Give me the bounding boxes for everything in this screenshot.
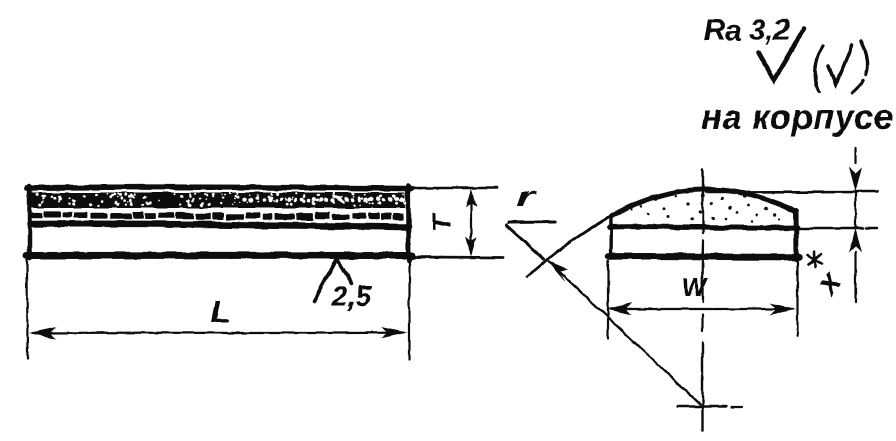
left view: braze seam thick line bbox=[30, 224, 408, 227]
roughness symbol small check in parentheses bbox=[829, 45, 852, 84]
radius leader diagonal bbox=[507, 225, 545, 259]
extension line below right edge for L bbox=[408, 261, 410, 360]
roughness symbol parentheses right bbox=[852, 42, 868, 93]
dimension W right arrowhead bbox=[770, 303, 796, 315]
dimension T lower arrowhead bbox=[466, 237, 477, 257]
dimension W line bbox=[612, 308, 793, 310]
extension line interface extra dash bbox=[866, 227, 877, 229]
dimension x upper arrowhead pointing down bbox=[849, 167, 862, 192]
vertical centerline (dash-dot) of right view bbox=[702, 170, 704, 233]
extension line at apex level for x dimension bbox=[706, 190, 877, 193]
dimension L left arrowhead bbox=[29, 327, 56, 339]
dimension L right arrowhead bbox=[381, 327, 408, 339]
left view: braze seam speckled band bbox=[30, 211, 403, 220]
dimension L line bbox=[33, 331, 404, 334]
label x asterisk bbox=[807, 252, 822, 267]
dimension x lower arrowhead pointing up bbox=[849, 229, 862, 253]
dimension T upper arrowhead bbox=[466, 189, 477, 209]
roughness symbol parentheses left bbox=[815, 46, 823, 92]
svg-text:Ra 3,2: Ra 3,2 bbox=[704, 14, 790, 47]
right view: stipple dots in carbide tip bbox=[631, 194, 780, 222]
radius dimension line from center to arc bbox=[549, 262, 700, 404]
svg-text:на корпусе: на корпусе bbox=[701, 98, 894, 137]
svg-text:T: T bbox=[427, 213, 457, 232]
dimension x lower shaft bbox=[854, 252, 856, 302]
right view: right edge bbox=[794, 212, 800, 260]
svg-text:2,5: 2,5 bbox=[330, 281, 372, 313]
extension line right of bottom edge for T bbox=[412, 256, 503, 259]
left view: plate outline top edge bbox=[27, 187, 411, 188]
center cross extra dash bbox=[731, 406, 742, 408]
centerline lower solid segment through center cross bbox=[701, 343, 703, 431]
svg-text:r: r bbox=[516, 183, 537, 212]
left view: plate outline left edge bbox=[27, 186, 32, 258]
extension line below left edge for L bbox=[26, 259, 29, 358]
left view: carbide layer dark band bbox=[31, 193, 405, 209]
extension line below dome left edge for W bbox=[607, 261, 609, 338]
roughness mark 2,5 check symbol bbox=[314, 259, 352, 302]
roughness symbol large check bbox=[759, 28, 805, 81]
extension line below dome right edge for W bbox=[796, 262, 798, 336]
dimension W left arrowhead bbox=[606, 303, 632, 315]
dimension x upper shaft dash bbox=[854, 148, 856, 163]
radius leader shelf under r bbox=[509, 221, 555, 225]
radius arrowhead on arc bbox=[546, 260, 568, 283]
extension line right of top edge for T bbox=[411, 186, 497, 189]
dimension x line between extension lines bbox=[854, 192, 856, 228]
dimension T line bbox=[470, 193, 472, 253]
right view: interface line between carbide tip and body bbox=[610, 227, 798, 228]
right view: left edge bbox=[609, 215, 613, 258]
left view: plate outline right edge bbox=[406, 186, 412, 260]
left view: white speckles in carbide band bbox=[35, 192, 406, 206]
center cross horizontal stroke bbox=[678, 405, 726, 407]
left view: plate outline bottom edge bbox=[26, 252, 412, 260]
right view: bottom edge bbox=[608, 253, 799, 260]
right view: arc extension beyond dome (radius construction) bbox=[527, 216, 612, 278]
extension line at interface level for x dimension bbox=[800, 227, 863, 230]
svg-text:L: L bbox=[211, 294, 230, 329]
svg-text:W: W bbox=[682, 272, 709, 302]
right view: dome top arc bbox=[611, 189, 796, 216]
